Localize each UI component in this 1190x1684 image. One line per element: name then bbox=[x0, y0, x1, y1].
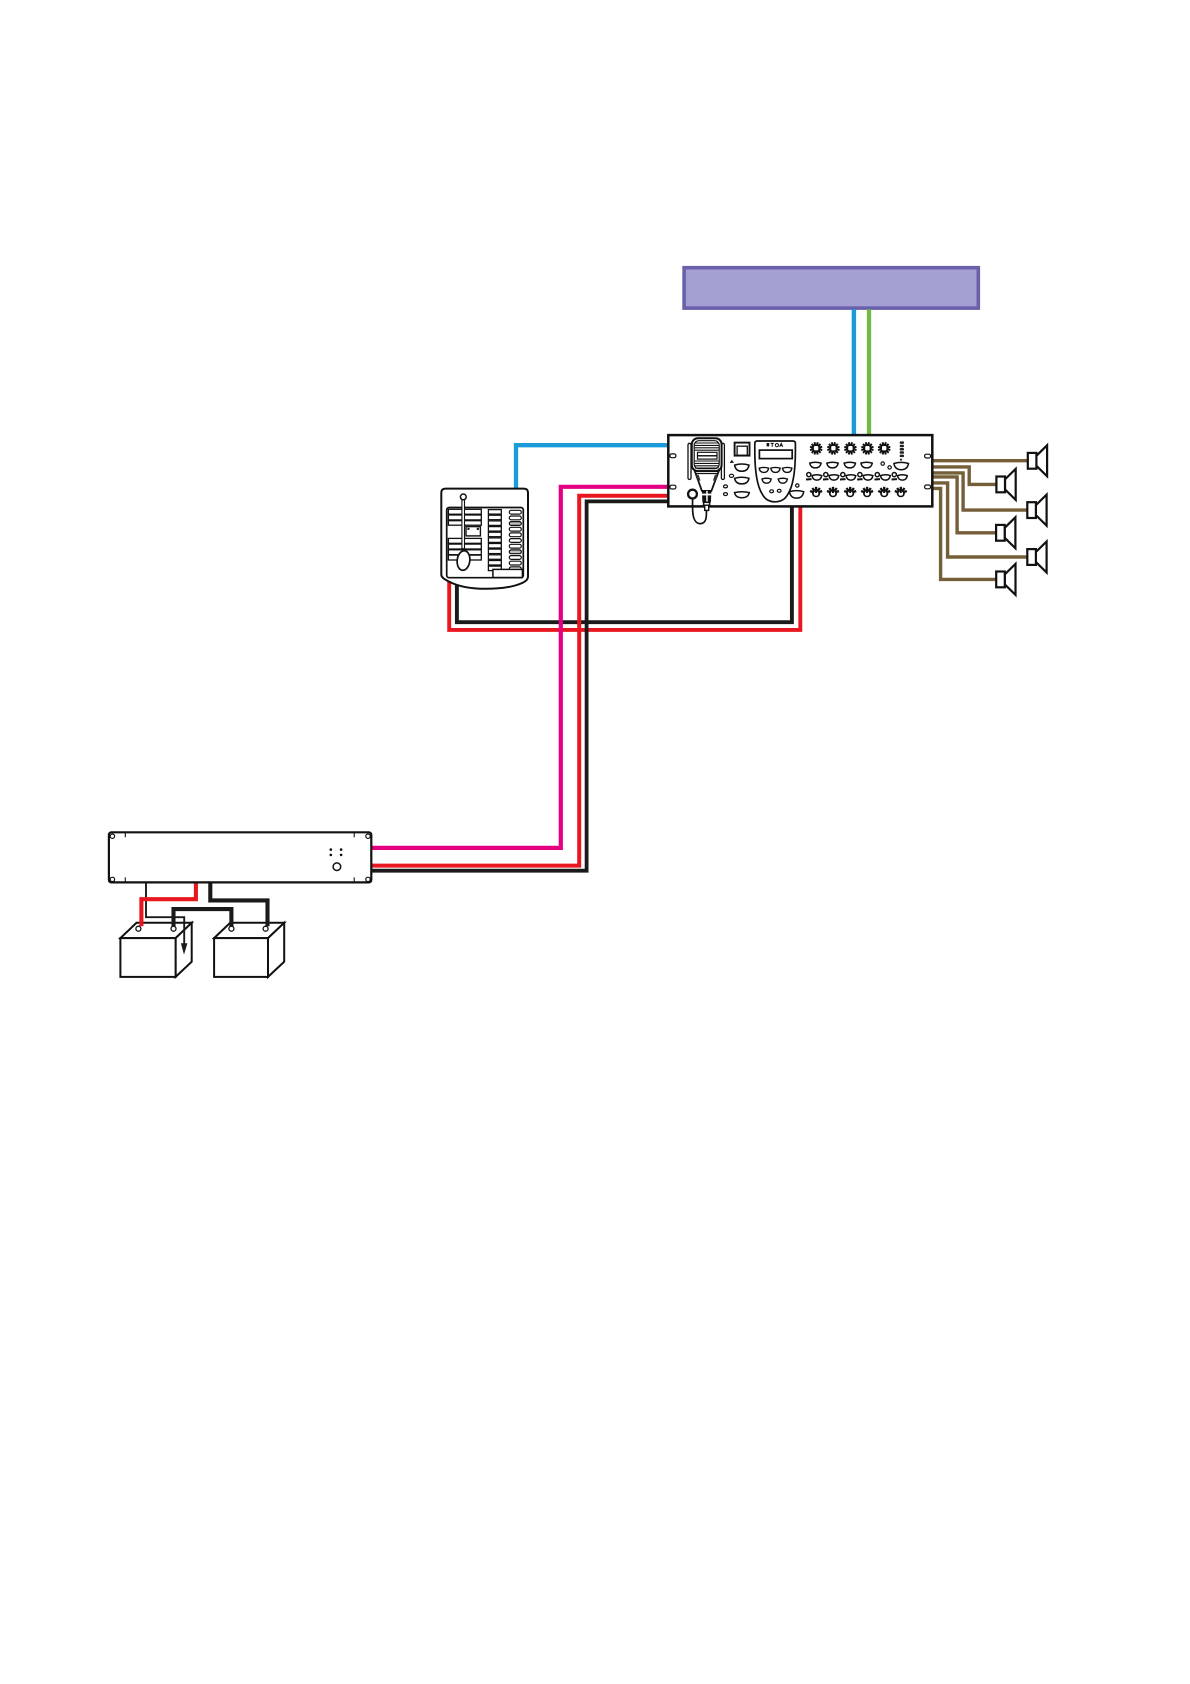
amplifier mounting hole bbox=[925, 485, 931, 489]
wire blue: zone bar to amplifier bbox=[852, 309, 856, 434]
row3 key bbox=[846, 475, 856, 480]
wire red: power supply to amplifier bbox=[370, 496, 669, 866]
row2 key bbox=[844, 462, 855, 468]
power supply corner screw bbox=[366, 834, 370, 838]
row3 mini knob bbox=[807, 473, 811, 477]
rotary knob row1 bbox=[810, 442, 822, 454]
microphone label bands bbox=[698, 452, 718, 455]
wire speaker line 4 bbox=[931, 477, 996, 533]
wire speaker line 1 bbox=[931, 459, 1028, 462]
panel key bbox=[771, 467, 780, 472]
button bowl B3 bbox=[735, 492, 750, 498]
power supply indicator dots bbox=[330, 848, 343, 856]
amplifier hand microphone clip right bbox=[721, 443, 724, 479]
rotary knob row4 bbox=[861, 487, 873, 498]
microphone cord loop bbox=[693, 499, 707, 523]
rotary knob row4 bbox=[810, 487, 822, 498]
amplifier hand microphone clip left bbox=[688, 443, 691, 479]
rotary knob row4 bbox=[844, 487, 856, 498]
speaker SP6 bbox=[996, 564, 1015, 595]
row3 mini knob bbox=[892, 473, 896, 477]
speaker SP1 bbox=[1028, 445, 1047, 476]
row3 key bbox=[812, 475, 822, 480]
row3 key bbox=[881, 475, 891, 480]
power supply unit (rack box) bbox=[109, 832, 371, 882]
wire black: remote panel power to amplifier bbox=[457, 507, 792, 623]
battery B1 terminal - bbox=[171, 926, 176, 931]
row2 dot bbox=[881, 462, 884, 465]
arrowhead of sense lead into battery 1 bbox=[181, 943, 188, 954]
remote panel left key rows bbox=[448, 509, 481, 560]
panel dot bbox=[777, 489, 781, 492]
wire speaker line 3 bbox=[931, 473, 1027, 510]
LCD display bbox=[759, 450, 792, 459]
remote panel gooseneck stalk bbox=[462, 500, 465, 549]
microphone grille lines bbox=[695, 443, 719, 468]
power supply corner screw bbox=[110, 877, 114, 881]
wire speaker line 5 bbox=[931, 483, 1027, 557]
button bowl right of panel bbox=[790, 491, 804, 499]
amplifier power button bbox=[735, 443, 750, 456]
button bowl B1 bbox=[735, 464, 749, 471]
rotary knob row4 bbox=[895, 487, 907, 498]
amplifier mounting hole bbox=[670, 485, 676, 489]
microphone jack socket bbox=[688, 490, 697, 499]
rotary knob row1 bbox=[844, 442, 856, 454]
TOA logo bbox=[767, 443, 783, 447]
amplifier hand microphone head bbox=[692, 438, 722, 471]
remote panel microphone capsule bbox=[456, 550, 471, 571]
battery B2 bbox=[214, 923, 284, 977]
wire black: series link battery 1 to battery 2 bbox=[174, 909, 232, 926]
wire red: remote panel power to amplifier bbox=[449, 507, 800, 630]
button bowl B2 bbox=[735, 477, 749, 484]
speaker SP5 bbox=[1027, 542, 1046, 573]
panel dot bbox=[770, 490, 774, 493]
row2 big key bbox=[894, 462, 909, 469]
vertical model text bbox=[900, 441, 904, 457]
zone indicator bar (purple) bbox=[684, 268, 978, 308]
wire black: power supply to battery 2 minus terminal bbox=[210, 882, 267, 927]
microphone plug tip bbox=[705, 505, 709, 510]
microphone plug collar bbox=[704, 502, 710, 505]
row3 mini knob bbox=[824, 473, 828, 477]
remote panel bottom tray bbox=[493, 569, 523, 577]
indicator triangle bbox=[730, 460, 734, 463]
row3 mini knob bbox=[841, 473, 845, 477]
panel key bbox=[778, 478, 787, 483]
rotary knob row4 bbox=[827, 487, 839, 498]
amplifier mounting hole bbox=[925, 454, 931, 458]
remote panel right button column bbox=[509, 510, 521, 570]
power supply rack ear notches bbox=[125, 833, 354, 883]
battery B1 bbox=[120, 923, 191, 977]
microphone chin line bbox=[696, 473, 717, 475]
remote panel middle key column bbox=[488, 510, 501, 571]
wire speaker line 2 bbox=[931, 467, 996, 485]
battery B2 terminal - bbox=[263, 926, 268, 931]
speaker SP4 bbox=[996, 517, 1015, 548]
speaker SP2 bbox=[996, 469, 1015, 500]
amplifier display panel outline bbox=[755, 441, 796, 502]
row3 key bbox=[863, 475, 873, 480]
microphone plug bbox=[702, 491, 712, 503]
row3 mini knob bbox=[858, 473, 862, 477]
microphone shoulder shadows bbox=[696, 475, 701, 481]
remote panel speaker window bbox=[466, 527, 480, 536]
battery B2 terminal + bbox=[229, 926, 234, 931]
row2 key bbox=[827, 462, 838, 468]
row3 mini knob bbox=[875, 473, 879, 477]
rotary knob row1 bbox=[861, 442, 873, 454]
wire speaker line 6 bbox=[931, 488, 996, 579]
remote microphone panel body bbox=[441, 489, 528, 589]
remote panel gooseneck ball bbox=[460, 494, 466, 500]
panel key bbox=[759, 467, 768, 472]
rotary knob row4 bbox=[878, 487, 890, 498]
row2 key bbox=[810, 462, 821, 468]
amplifier main chassis bbox=[668, 435, 932, 506]
power supply front circle control bbox=[333, 863, 341, 871]
panel key bbox=[783, 467, 792, 472]
indicator dot bbox=[796, 484, 799, 487]
rotary knob row1 bbox=[827, 442, 839, 454]
power supply corner screw bbox=[110, 834, 114, 838]
indicator dot bbox=[724, 493, 728, 496]
wire magenta: power supply to amplifier bbox=[370, 487, 669, 848]
speaker SP3 bbox=[1027, 495, 1046, 526]
rotary knob row1 bbox=[878, 442, 890, 454]
microphone tapered body bbox=[695, 471, 719, 491]
wire blue: remote panel to amplifier bbox=[516, 445, 669, 489]
row2 dot bbox=[888, 466, 891, 469]
panel key bbox=[762, 478, 771, 483]
remote panel inner face bbox=[447, 508, 524, 578]
power supply corner screw bbox=[366, 877, 370, 881]
indicator dot bbox=[729, 474, 733, 477]
row2 key bbox=[861, 462, 872, 468]
row3 key bbox=[898, 475, 908, 480]
plus mark bbox=[900, 459, 902, 461]
amplifier mounting hole bbox=[670, 454, 676, 458]
indicator dot bbox=[724, 485, 728, 488]
battery B1 terminal + bbox=[136, 926, 141, 931]
wire thin black: power supply sense lead into battery 1 bbox=[146, 882, 184, 945]
wire green: zone bar to amplifier bbox=[867, 309, 871, 434]
wire red: power supply to battery 1 plus terminal bbox=[141, 882, 196, 927]
row3 key bbox=[829, 475, 839, 480]
wire black: power supply to amplifier bbox=[370, 501, 669, 870]
